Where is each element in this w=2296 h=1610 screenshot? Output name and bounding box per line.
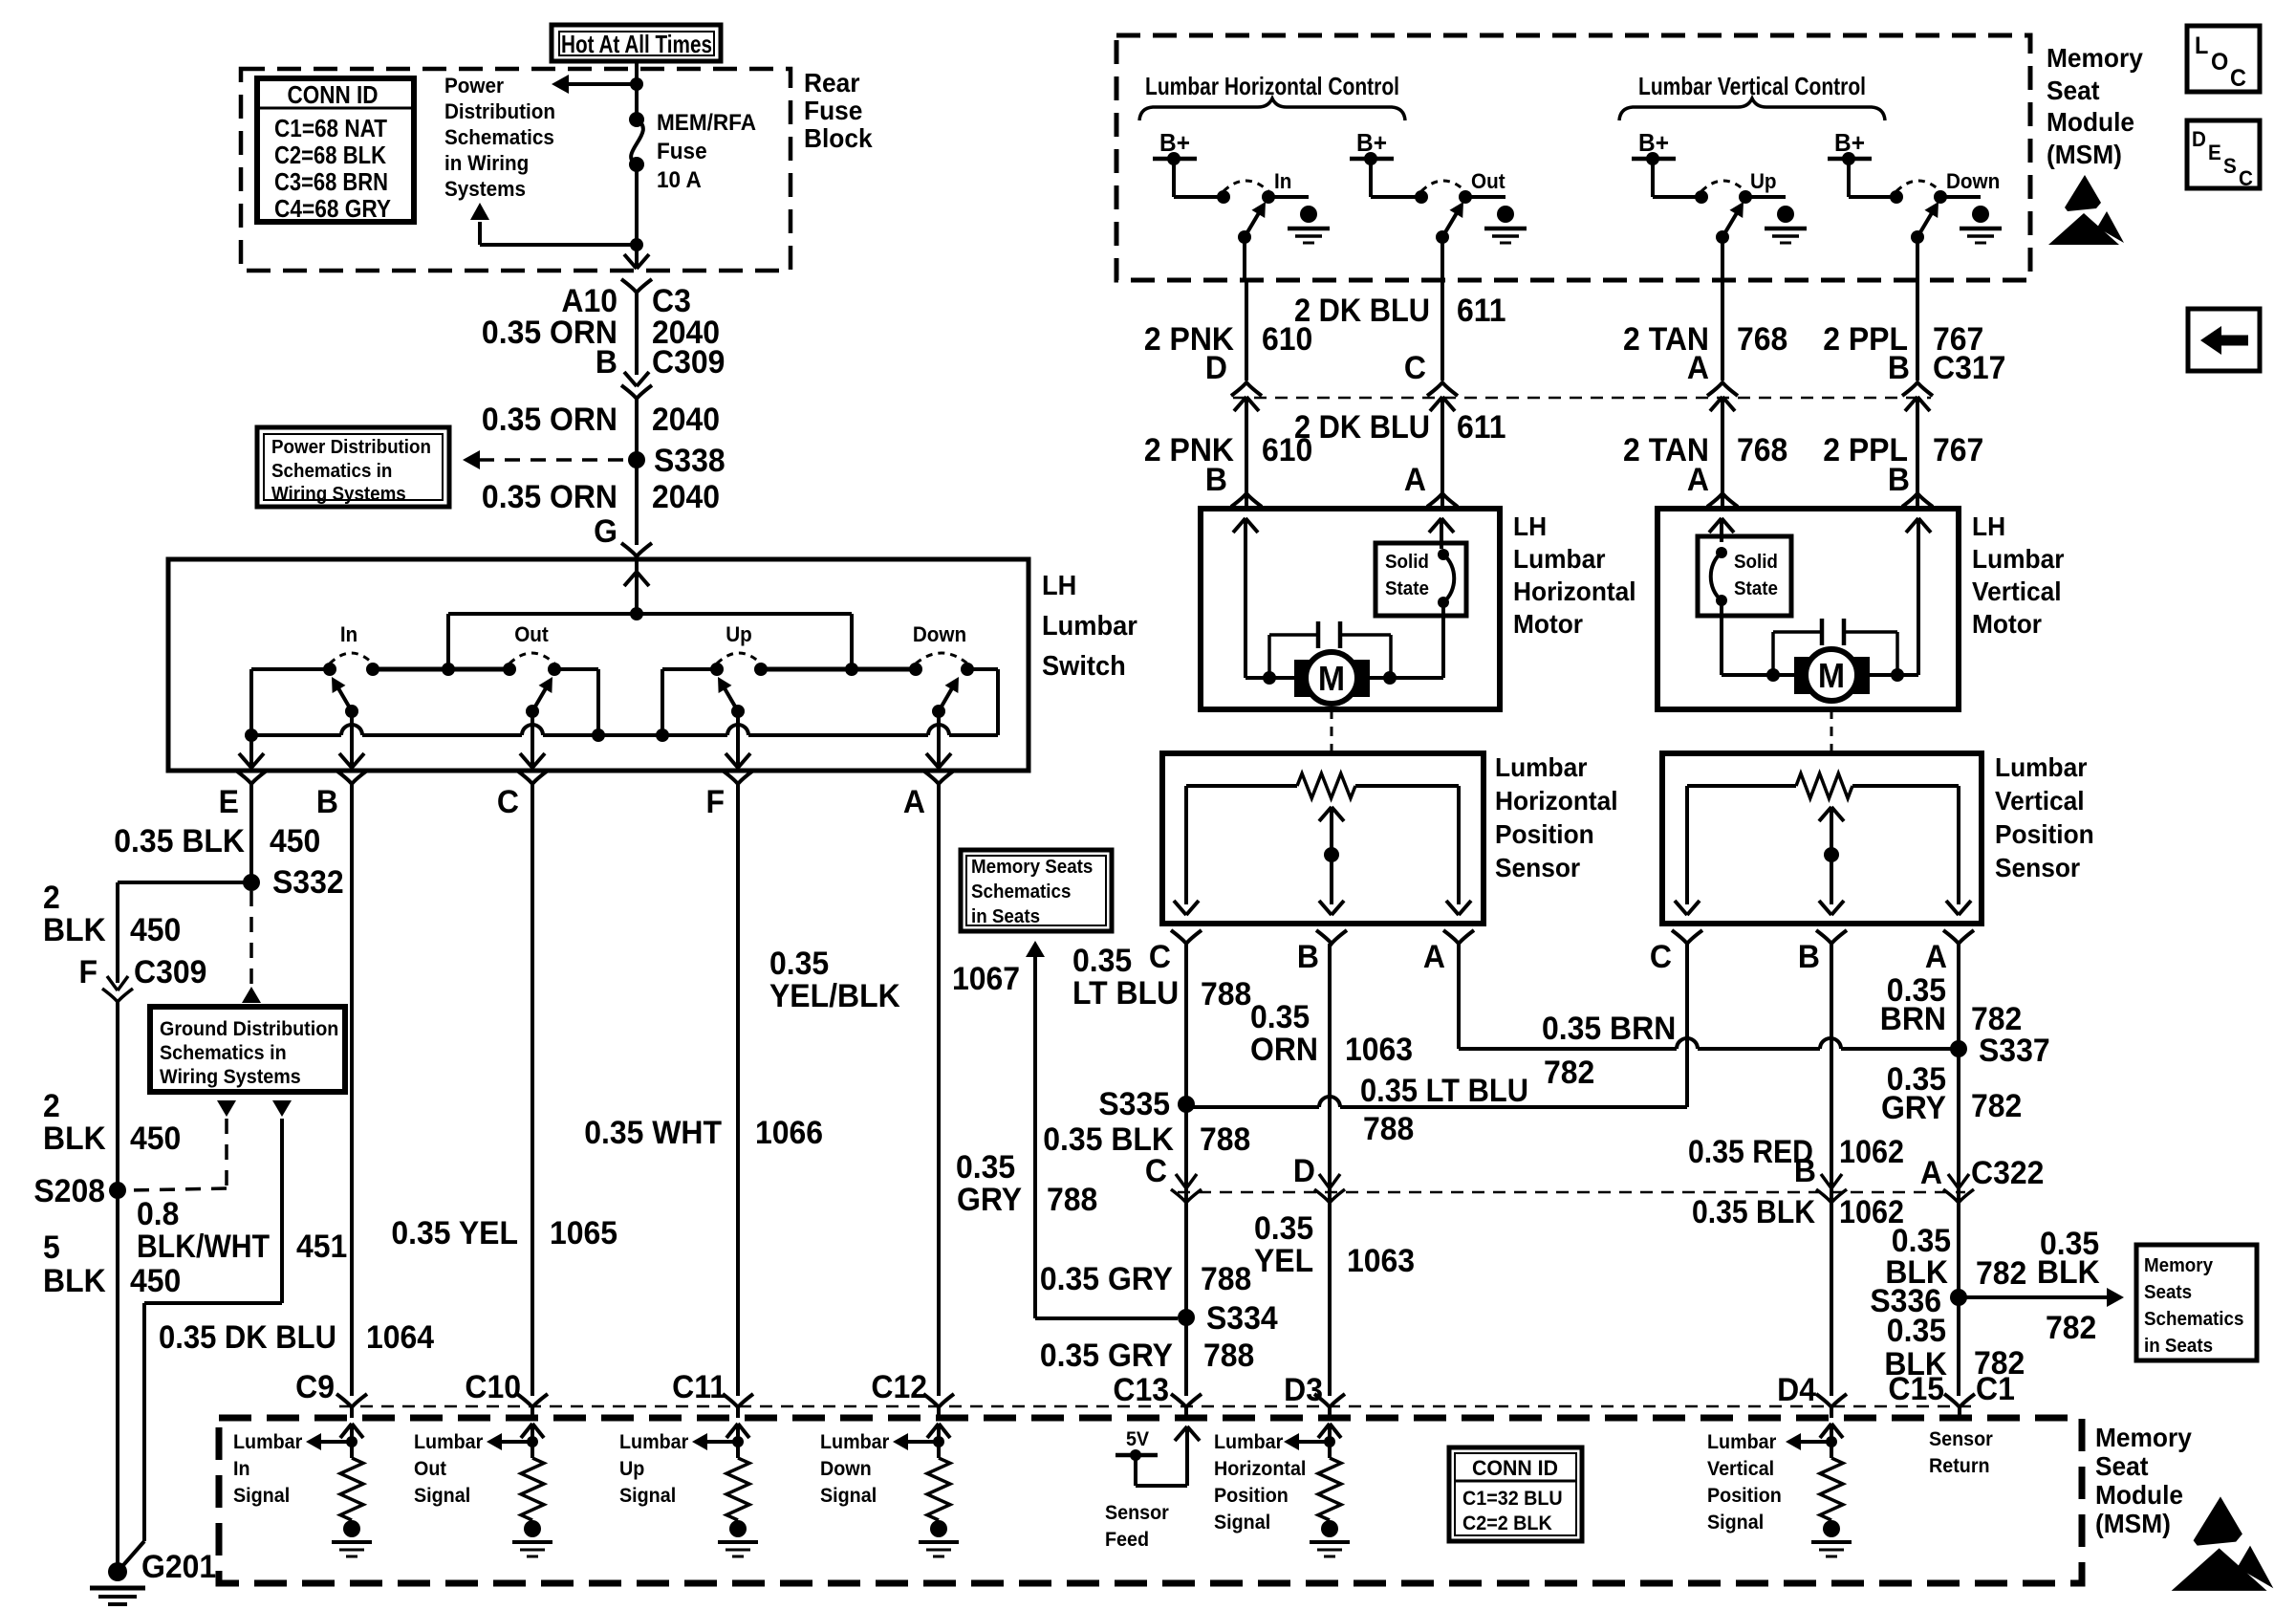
- svg-text:788: 788: [1203, 1337, 1254, 1373]
- svg-text:D4: D4: [1777, 1371, 1816, 1407]
- lumbar in signal input: [340, 1424, 352, 1438]
- svg-text:Systems: Systems: [444, 177, 526, 201]
- svg-text:BRN: BRN: [1880, 1000, 1946, 1036]
- wire Up-right to Down-left: [761, 667, 916, 672]
- svg-text:Up: Up: [1750, 169, 1777, 193]
- svg-text:Memory: Memory: [2144, 1254, 2213, 1276]
- arrow to power distribution (top): [566, 82, 637, 86]
- svg-text:LH: LH: [1513, 511, 1547, 541]
- svg-text:C: C: [1149, 938, 1171, 974]
- svg-text:C: C: [2230, 65, 2246, 92]
- svg-text:1064: 1064: [366, 1318, 435, 1355]
- solid state contact (vertical): [1716, 547, 1727, 558]
- MSM In pole: [1238, 230, 1251, 244]
- brace lumbar horizontal control: [1139, 98, 1405, 120]
- svg-text:2: 2: [43, 879, 60, 915]
- svg-text:M: M: [1318, 660, 1345, 698]
- wire Out output: [1440, 237, 1444, 280]
- switch Up contacts: [710, 663, 724, 676]
- rear fuse block dashed box: [241, 69, 791, 271]
- svg-text:S332: S332: [272, 863, 344, 900]
- dashed link motor to sensor (vertical): [1830, 709, 1833, 751]
- svg-text:ORN: ORN: [1250, 1031, 1318, 1067]
- wire S334 to memory seats box: [1026, 941, 1045, 957]
- svg-text:D: D: [1205, 349, 1227, 385]
- wire below fuse: [635, 164, 639, 266]
- wire In output: [1243, 237, 1246, 280]
- svg-text:Module: Module: [2047, 106, 2134, 137]
- svg-text:B: B: [1297, 938, 1319, 974]
- power distribution schematics box (mid): [257, 427, 449, 507]
- svg-text:In: In: [1274, 169, 1291, 193]
- arrow to power distribution (bottom): [480, 243, 637, 247]
- svg-text:450: 450: [270, 822, 320, 859]
- svg-text:0.35: 0.35: [1887, 1312, 1946, 1348]
- wire sensor-H B: [1328, 944, 1332, 1396]
- svg-text:Fuse: Fuse: [657, 138, 707, 163]
- wire sensor-H A to S337: [1457, 944, 1461, 1049]
- svg-text:Sensor: Sensor: [1929, 1428, 1993, 1450]
- dashed connector line C317: [1233, 397, 1931, 400]
- svg-text:in Wiring: in Wiring: [444, 151, 529, 175]
- svg-text:Lumbar: Lumbar: [619, 1431, 688, 1453]
- svg-text:C3=68 BRN: C3=68 BRN: [274, 167, 388, 196]
- switch common rail: [251, 733, 341, 737]
- wire TAN from MSM: [1721, 280, 1724, 381]
- solid state box (vertical motor): [1698, 536, 1791, 616]
- svg-text:0.35 BLK: 0.35 BLK: [114, 822, 245, 859]
- connector C9: [336, 1394, 367, 1407]
- motor M (horizontal): [1294, 660, 1312, 697]
- svg-text:YEL: YEL: [1254, 1242, 1313, 1278]
- splice S336: [1950, 1289, 1967, 1306]
- lumbar down signal input: [927, 1424, 939, 1438]
- svg-text:MEM/RFA: MEM/RFA: [657, 110, 756, 136]
- potentiometer (horizontal): [1186, 784, 1297, 788]
- svg-text:0.35 ORN: 0.35 ORN: [482, 478, 617, 514]
- svg-text:BLK: BLK: [43, 1262, 106, 1298]
- svg-text:S337: S337: [1979, 1032, 2050, 1068]
- switch Out contacts: [503, 663, 516, 676]
- svg-text:Block: Block: [804, 122, 873, 153]
- svg-text:782: 782: [1544, 1054, 1594, 1090]
- wire sensor-V C to S335 (LT BLU): [1685, 944, 1689, 1107]
- sensor terminals (vertical): [1672, 930, 1702, 944]
- svg-text:C1=32 BLU: C1=32 BLU: [1462, 1488, 1563, 1510]
- LOC box: [2187, 26, 2260, 92]
- svg-text:LH: LH: [1972, 511, 2005, 541]
- svg-text:0.35: 0.35: [1254, 1209, 1313, 1246]
- svg-text:A: A: [903, 783, 925, 819]
- splice S332: [243, 874, 260, 891]
- svg-text:F: F: [78, 953, 97, 990]
- wire A inside vertical motor: [1709, 518, 1722, 533]
- svg-text:Power Distribution: Power Distribution: [271, 436, 431, 458]
- memory seats schematics box (right): [2136, 1245, 2257, 1360]
- svg-text:O: O: [2211, 49, 2228, 76]
- connector D3: [1314, 1394, 1345, 1407]
- svg-text:B: B: [1888, 349, 1910, 385]
- svg-text:Up: Up: [726, 622, 752, 646]
- svg-text:A: A: [1687, 349, 1709, 385]
- svg-text:2 DK BLU: 2 DK BLU: [1294, 409, 1430, 446]
- svg-text:B: B: [316, 783, 338, 819]
- wire PNK from MSM: [1245, 280, 1248, 381]
- svg-text:Out: Out: [414, 1458, 446, 1480]
- svg-text:C13: C13: [1113, 1371, 1169, 1407]
- svg-text:788: 788: [1047, 1181, 1097, 1217]
- connector C322 pin C: [1176, 1174, 1186, 1188]
- svg-text:Ground Distribution: Ground Distribution: [160, 1018, 338, 1040]
- svg-text:BLK: BLK: [2037, 1253, 2100, 1290]
- svg-text:S: S: [2223, 154, 2237, 178]
- svg-text:C15: C15: [1888, 1370, 1944, 1406]
- svg-text:Lumbar: Lumbar: [1214, 1431, 1283, 1453]
- svg-text:Module: Module: [2095, 1479, 2183, 1510]
- svg-text:Seat: Seat: [2047, 75, 2100, 105]
- ESD symbol top: [2065, 175, 2101, 211]
- svg-text:A: A: [1920, 1154, 1942, 1190]
- svg-text:A: A: [1423, 938, 1445, 974]
- switch Down contacts: [909, 663, 922, 676]
- svg-text:Solid: Solid: [1734, 551, 1778, 573]
- switch feed rail: [448, 612, 852, 616]
- connector C12: [923, 1394, 954, 1407]
- svg-text:Distribution: Distribution: [444, 99, 555, 123]
- svg-text:B: B: [1205, 461, 1227, 497]
- svg-text:Signal: Signal: [1214, 1512, 1270, 1534]
- svg-text:Horizontal: Horizontal: [1495, 785, 1618, 816]
- svg-text:0.35 LT BLU: 0.35 LT BLU: [1360, 1073, 1528, 1109]
- dashed connector line C322: [1178, 1191, 1965, 1194]
- svg-text:0.35: 0.35: [956, 1148, 1015, 1185]
- svg-text:Down: Down: [1946, 169, 2000, 193]
- svg-text:Return: Return: [1929, 1455, 1990, 1477]
- svg-text:Position: Position: [1214, 1485, 1289, 1507]
- svg-text:1062: 1062: [1839, 1134, 1904, 1170]
- svg-text:Signal: Signal: [414, 1485, 470, 1507]
- svg-text:Position: Position: [1995, 818, 2094, 849]
- CONN ID table (rear fuse block): [257, 78, 414, 222]
- svg-text:State: State: [1385, 577, 1429, 599]
- svg-text:782: 782: [1976, 1254, 2026, 1291]
- svg-text:Motor: Motor: [1972, 608, 2042, 639]
- dashed link motor to sensor (horizontal): [1331, 709, 1333, 751]
- memory seat module top dashed box: [1116, 35, 2030, 280]
- wire PPL from MSM: [1916, 280, 1919, 381]
- connector C13: [1171, 1394, 1202, 1407]
- ground G201: [108, 1562, 127, 1581]
- svg-text:CONN ID: CONN ID: [1472, 1456, 1558, 1480]
- wire exits fuse block: [624, 254, 637, 269]
- svg-text:CONN ID: CONN ID: [288, 80, 379, 109]
- svg-text:0.8: 0.8: [137, 1195, 179, 1231]
- svg-text:0.35 GRY: 0.35 GRY: [1040, 1260, 1173, 1296]
- svg-text:A: A: [1925, 938, 1947, 974]
- svg-text:610: 610: [1262, 320, 1312, 357]
- svg-text:E: E: [2208, 141, 2221, 164]
- svg-text:Lumbar: Lumbar: [1513, 543, 1606, 574]
- motor M (vertical): [1794, 657, 1812, 694]
- svg-text:Schematics in: Schematics in: [160, 1042, 287, 1064]
- svg-text:YEL/BLK: YEL/BLK: [769, 977, 900, 1013]
- svg-text:Lumbar: Lumbar: [1972, 543, 2065, 574]
- svg-text:C: C: [497, 783, 519, 819]
- svg-text:610: 610: [1262, 431, 1312, 468]
- svg-text:A: A: [1687, 461, 1709, 497]
- svg-text:B: B: [1888, 461, 1910, 497]
- svg-text:L: L: [2195, 33, 2209, 59]
- ground Down switch: [1972, 206, 1989, 223]
- svg-text:C10: C10: [465, 1368, 521, 1404]
- svg-text:GRY: GRY: [957, 1181, 1022, 1217]
- lumbar vertical position sensor box: [1662, 753, 1982, 924]
- svg-text:C: C: [1404, 349, 1426, 385]
- svg-text:In: In: [340, 622, 357, 646]
- potentiometer (vertical): [1687, 784, 1796, 788]
- svg-text:Position: Position: [1495, 818, 1594, 849]
- svg-text:Wiring Systems: Wiring Systems: [271, 483, 406, 505]
- switch feed wire: [635, 559, 639, 614]
- svg-text:Feed: Feed: [1105, 1529, 1149, 1551]
- svg-text:451: 451: [296, 1228, 347, 1264]
- svg-text:(MSM): (MSM): [2047, 139, 2122, 169]
- svg-text:450: 450: [130, 1120, 181, 1156]
- svg-text:in Seats: in Seats: [971, 905, 1040, 927]
- svg-text:611: 611: [1457, 292, 1506, 328]
- splice S208: [109, 1182, 126, 1199]
- svg-text:Signal: Signal: [1707, 1512, 1764, 1534]
- svg-text:Rear: Rear: [804, 67, 860, 98]
- svg-text:LH: LH: [1042, 570, 1076, 600]
- wire E out: [249, 735, 253, 771]
- svg-text:Signal: Signal: [619, 1485, 676, 1507]
- DESC box: [2187, 120, 2260, 188]
- 5V sensor feed: [1175, 1426, 1187, 1441]
- lumbar horizontal position sensor box: [1162, 753, 1484, 924]
- svg-text:Position: Position: [1707, 1485, 1782, 1507]
- svg-text:788: 788: [1363, 1110, 1414, 1146]
- svg-text:Up: Up: [619, 1458, 644, 1480]
- connector into horizontal motor B: [1231, 493, 1262, 507]
- connector into vertical motor A: [1707, 493, 1738, 507]
- dashed reference to power distribution box: [478, 458, 623, 462]
- svg-text:Signal: Signal: [233, 1485, 290, 1507]
- svg-text:Lumbar: Lumbar: [820, 1431, 889, 1453]
- wire B out: [350, 711, 354, 771]
- wire sensor-V A: [1957, 944, 1960, 1396]
- svg-text:Hot At All Times: Hot At All Times: [561, 30, 712, 58]
- MSM Out pole: [1436, 230, 1449, 244]
- wire E to G201: [116, 1190, 119, 1572]
- svg-text:(MSM): (MSM): [2095, 1508, 2171, 1538]
- dashed S208 to ground distribution box: [217, 1100, 236, 1117]
- svg-text:Memory: Memory: [2095, 1422, 2192, 1452]
- wire 451 from ground box: [272, 1100, 292, 1117]
- svg-text:Vertical: Vertical: [1707, 1458, 1774, 1480]
- svg-text:5V: 5V: [1126, 1428, 1150, 1450]
- svg-text:1063: 1063: [1347, 1242, 1415, 1278]
- connector D4: [1816, 1394, 1847, 1407]
- svg-text:BLK: BLK: [43, 1120, 106, 1156]
- svg-text:Power: Power: [444, 74, 504, 98]
- svg-text:Schematics: Schematics: [444, 125, 554, 149]
- svg-text:BLK/WHT: BLK/WHT: [137, 1229, 270, 1265]
- connector C309 lower (inline): [107, 976, 118, 990]
- switch In contacts: [323, 663, 336, 676]
- wire S332 to C309: [118, 881, 251, 884]
- MSM Down switch: [1890, 190, 1903, 204]
- svg-text:Sensor: Sensor: [1495, 852, 1581, 882]
- svg-text:0.35 BRN: 0.35 BRN: [1542, 1010, 1676, 1046]
- svg-text:Lumbar: Lumbar: [1707, 1431, 1776, 1453]
- svg-text:Down: Down: [913, 622, 966, 646]
- wire fuse feed from hot box: [635, 61, 639, 120]
- MSM Up switch: [1695, 190, 1708, 204]
- hot-at-all-times box: [552, 25, 721, 61]
- ESD symbol bottom: [2194, 1496, 2242, 1545]
- ground Up switch: [1777, 206, 1794, 223]
- svg-text:BLK: BLK: [43, 911, 106, 947]
- svg-text:0.35: 0.35: [1072, 942, 1132, 978]
- svg-text:C317: C317: [1933, 349, 2005, 385]
- svg-text:611: 611: [1457, 408, 1506, 445]
- lumbar horizontal position signal input: [1318, 1424, 1330, 1438]
- svg-text:Vertical: Vertical: [1972, 576, 2062, 606]
- connector C309 (inline): [624, 372, 637, 386]
- svg-text:Schematics: Schematics: [2144, 1308, 2243, 1330]
- lumbar vertical position signal input: [1820, 1424, 1831, 1438]
- svg-text:F: F: [705, 783, 725, 819]
- connector C317 PPL: [1902, 382, 1933, 396]
- wire DKBLU from MSM: [1440, 280, 1444, 381]
- svg-text:782: 782: [2046, 1309, 2096, 1345]
- wire A inside horizontal motor: [1429, 518, 1441, 533]
- svg-text:C322: C322: [1971, 1154, 2044, 1190]
- svg-text:Fuse: Fuse: [804, 95, 862, 125]
- svg-text:D: D: [2192, 127, 2206, 151]
- svg-text:Horizontal: Horizontal: [1513, 576, 1636, 606]
- svg-text:G: G: [594, 512, 617, 549]
- arrow S336 to memory seats schematics: [1959, 1295, 2107, 1299]
- connector C317 DKBLU: [1427, 382, 1458, 396]
- ground Out switch: [1497, 206, 1514, 223]
- wire Up-left to rail: [662, 667, 717, 671]
- svg-text:B: B: [1798, 938, 1820, 974]
- svg-text:LT BLU: LT BLU: [1072, 974, 1179, 1011]
- MSM bottom connector dashed line: [339, 1405, 1971, 1408]
- svg-text:C11: C11: [672, 1368, 726, 1404]
- MSM In switch: [1217, 190, 1230, 204]
- svg-text:C: C: [2239, 166, 2253, 190]
- svg-text:Down: Down: [820, 1458, 872, 1480]
- svg-text:S338: S338: [654, 442, 726, 478]
- svg-text:450: 450: [130, 911, 181, 947]
- svg-text:Seat: Seat: [2095, 1450, 2149, 1481]
- svg-text:450: 450: [130, 1262, 181, 1298]
- wire sensor-V B: [1830, 944, 1833, 1396]
- ground In switch: [1300, 206, 1317, 223]
- svg-text:Schematics in: Schematics in: [271, 460, 392, 482]
- wiper (horizontal sensor): [1319, 807, 1332, 821]
- svg-text:10 A: 10 A: [657, 166, 702, 192]
- connector C322 pin D: [1319, 1174, 1330, 1188]
- svg-text:Sensor: Sensor: [1995, 852, 2081, 882]
- svg-text:C: C: [1145, 1152, 1167, 1188]
- svg-text:2040: 2040: [652, 478, 720, 514]
- svg-text:0.35 YEL: 0.35 YEL: [391, 1214, 518, 1251]
- wire sensor-H C: [1184, 944, 1188, 1396]
- connector C322 pin A: [1948, 1174, 1959, 1188]
- svg-text:788: 788: [1200, 1120, 1250, 1157]
- wire Up output: [1721, 237, 1724, 280]
- svg-text:In: In: [233, 1458, 250, 1480]
- connector G into switch: [621, 543, 652, 556]
- wire In-right to Out-left: [373, 667, 509, 672]
- memory seats schematics box (left): [961, 850, 1112, 931]
- dashed S332 to ground distribution box: [249, 891, 253, 985]
- svg-text:D: D: [1293, 1152, 1315, 1188]
- switch Out pole: [526, 705, 539, 718]
- svg-text:Schematics: Schematics: [971, 881, 1071, 903]
- svg-text:Switch: Switch: [1042, 650, 1126, 681]
- svg-text:788: 788: [1201, 1260, 1251, 1296]
- svg-text:C1=68 NAT: C1=68 NAT: [274, 114, 387, 142]
- back arrow box: [2188, 309, 2260, 371]
- svg-text:GRY: GRY: [1881, 1089, 1946, 1125]
- splice S335: [1178, 1096, 1195, 1113]
- svg-text:C309: C309: [134, 953, 206, 990]
- svg-text:Horizontal: Horizontal: [1214, 1458, 1306, 1480]
- svg-text:State: State: [1734, 577, 1778, 599]
- svg-text:B: B: [1794, 1152, 1816, 1188]
- wire Down-right to rail: [967, 667, 998, 671]
- wire 451 jog to G201: [144, 1301, 282, 1305]
- svg-text:C309: C309: [652, 343, 725, 380]
- svg-text:768: 768: [1737, 320, 1787, 357]
- splice S334: [1178, 1309, 1195, 1326]
- svg-text:Lumbar: Lumbar: [1495, 751, 1588, 782]
- svg-text:Out: Out: [1471, 169, 1505, 193]
- connector C322 pin B: [1821, 1174, 1831, 1188]
- svg-text:Out: Out: [514, 622, 549, 646]
- memory seat module bottom dashed box: [219, 1418, 2082, 1583]
- svg-text:A: A: [1404, 461, 1426, 497]
- LH lumbar horizontal motor box: [1201, 509, 1500, 709]
- svg-text:2 DK BLU: 2 DK BLU: [1294, 293, 1430, 329]
- svg-text:2040: 2040: [652, 401, 720, 437]
- svg-text:0.35: 0.35: [769, 945, 829, 981]
- connector C317 TAN: [1707, 382, 1738, 396]
- switch Up pole: [731, 705, 745, 718]
- wire A out: [937, 711, 941, 771]
- ground distribution schematics box: [150, 1007, 345, 1092]
- wire B inside horizontal motor: [1233, 518, 1245, 533]
- svg-text:D3: D3: [1284, 1371, 1323, 1407]
- fuse MEM/RFA 10A: [629, 112, 644, 127]
- connector C10: [517, 1394, 548, 1407]
- svg-text:0.35: 0.35: [1250, 998, 1310, 1034]
- svg-text:0.35 ORN: 0.35 ORN: [482, 401, 617, 437]
- svg-text:Lumbar: Lumbar: [233, 1431, 302, 1453]
- svg-text:Solid: Solid: [1385, 551, 1429, 573]
- svg-text:G201: G201: [141, 1548, 216, 1584]
- lumbar out signal input: [521, 1424, 532, 1438]
- wire Out-right to rail: [554, 667, 598, 671]
- svg-text:Lumbar: Lumbar: [1042, 610, 1137, 641]
- connector C1 sensor return: [1944, 1394, 1975, 1407]
- MSM Out switch: [1415, 190, 1428, 204]
